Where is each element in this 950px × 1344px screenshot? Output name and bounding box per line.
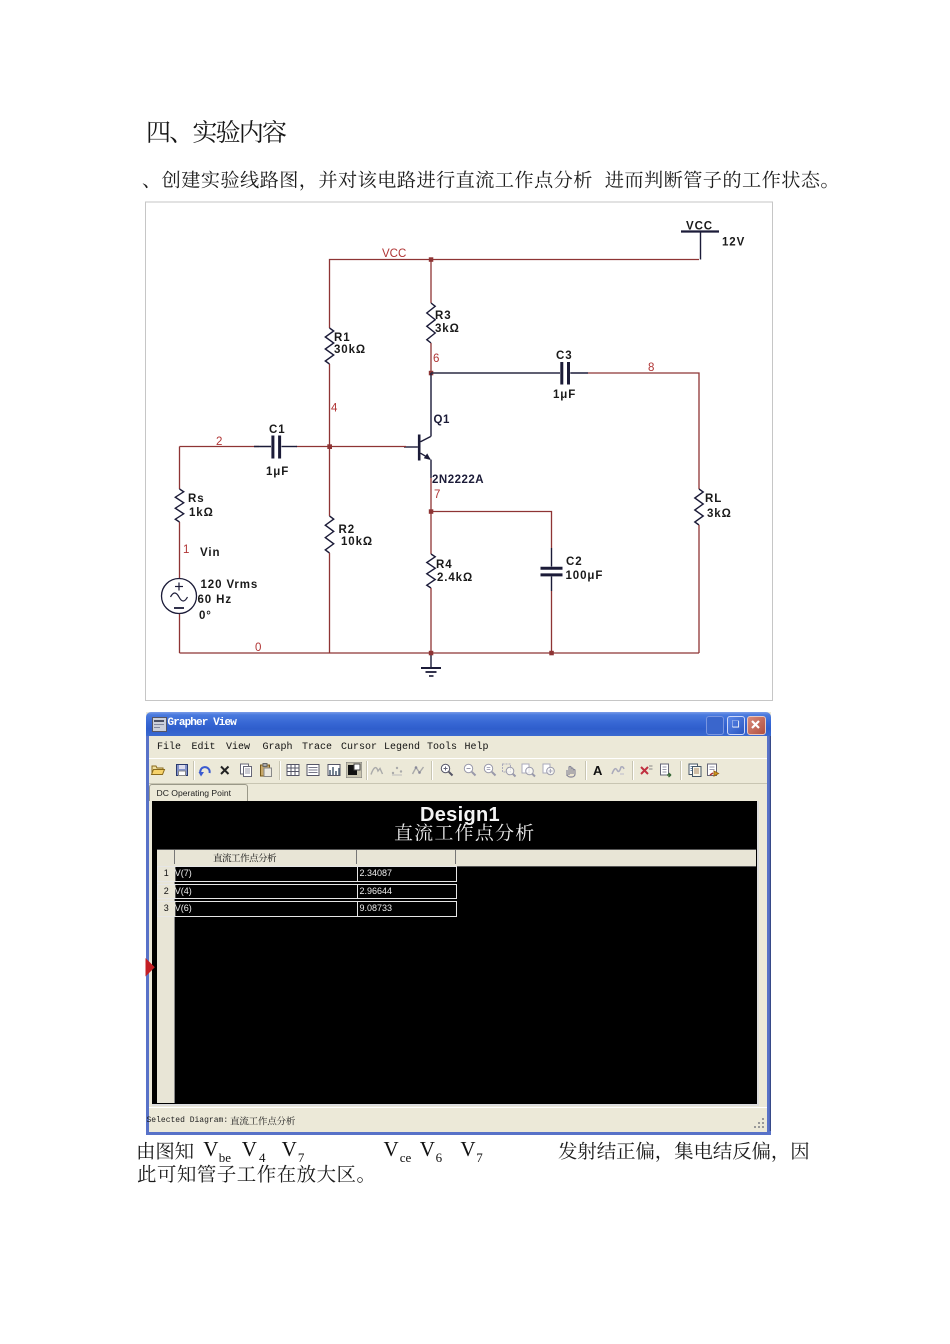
svg-text:6: 6 <box>433 353 439 365</box>
svg-text:3kΩ: 3kΩ <box>435 323 460 335</box>
label VCC 12V <box>686 221 745 249</box>
svg-text:VCC: VCC <box>382 248 406 260</box>
svg-text:Q1: Q1 <box>434 414 450 426</box>
svg-text:R1: R1 <box>334 332 351 344</box>
resistor R2 <box>325 516 333 553</box>
heading <box>146 114 312 150</box>
svg-text:1kΩ: 1kΩ <box>189 507 214 519</box>
svg-text:1μF: 1μF <box>266 466 289 478</box>
label R4 2.4k <box>436 559 473 584</box>
wire Rs branch <box>179 447 181 654</box>
svg-text:RL: RL <box>705 493 722 505</box>
svg-text:4: 4 <box>331 403 338 415</box>
svg-text:0: 0 <box>255 642 261 654</box>
node 6 <box>429 353 440 375</box>
node 0 <box>255 642 261 654</box>
resistor Rs <box>175 489 183 522</box>
transistor Q1 <box>404 373 431 478</box>
svg-text:12V: 12V <box>722 237 745 249</box>
wire node7 to C2 <box>431 512 552 549</box>
svg-text:0°: 0° <box>199 610 212 622</box>
resistor R3 <box>427 260 435 374</box>
junction C2 ground rail <box>549 651 554 656</box>
node 2 wire C1 to base <box>180 446 407 448</box>
resistor RL <box>695 489 703 525</box>
svg-text:R3: R3 <box>435 310 452 322</box>
node 2 <box>216 436 222 448</box>
label R3 3k <box>435 310 460 335</box>
node VCC rail label <box>382 248 406 260</box>
junction R4 ground rail <box>429 651 434 656</box>
svg-text:R2: R2 <box>339 524 356 536</box>
node 4 <box>328 403 339 450</box>
svg-text:R4: R4 <box>436 559 453 571</box>
svg-text:7: 7 <box>434 489 440 501</box>
svg-text:10kΩ: 10kΩ <box>341 536 373 548</box>
svg-text:1: 1 <box>183 544 189 556</box>
svg-text:100μF: 100μF <box>566 570 604 582</box>
label Rs 1k <box>188 493 214 519</box>
label C2 100uF <box>566 556 604 582</box>
bottom conclusion text <box>136 1137 215 1165</box>
svg-text:C2: C2 <box>566 556 583 568</box>
wire C3 to RL <box>588 373 699 489</box>
wire ground rail <box>180 652 700 654</box>
label C1 1uF <box>266 424 289 478</box>
node 7 <box>429 489 441 514</box>
svg-text:2: 2 <box>216 436 222 448</box>
svg-text:C1: C1 <box>269 424 286 436</box>
junction R3 top rail <box>429 257 434 262</box>
svg-text:120 Vrms: 120 Vrms <box>201 579 259 591</box>
node 1 <box>183 544 189 556</box>
circuit image frame <box>146 202 773 701</box>
svg-text:C3: C3 <box>556 350 573 362</box>
paragraph <box>142 166 861 193</box>
resistor R4 <box>427 512 435 654</box>
wire emitter to node7 <box>430 478 432 512</box>
wire collector to C3 <box>431 372 545 374</box>
capacitor C3 <box>545 362 588 385</box>
label R2 10k <box>339 524 374 548</box>
label RL 3k <box>705 493 732 520</box>
svg-text:Rs: Rs <box>188 493 205 505</box>
junction node4 <box>327 444 332 449</box>
svg-text:60 Hz: 60 Hz <box>198 594 233 606</box>
capacitor C2 <box>541 548 563 653</box>
svg-text:Vin: Vin <box>200 547 220 559</box>
svg-text:30kΩ: 30kΩ <box>334 344 366 356</box>
ground <box>421 653 441 676</box>
svg-text:1μF: 1μF <box>553 389 576 401</box>
node 8 <box>648 362 654 374</box>
wire R2 to ground rail <box>329 447 331 654</box>
label C3 1uF <box>553 350 576 401</box>
svg-text:2N2222A: 2N2222A <box>432 474 484 486</box>
wire RL to ground rail <box>698 525 700 653</box>
label source 120Vrms 60Hz 0deg <box>198 579 259 622</box>
resistor R1 <box>325 328 333 364</box>
svg-text:VCC: VCC <box>686 221 713 233</box>
svg-text:2.4kΩ: 2.4kΩ <box>437 572 473 584</box>
svg-text:A: A <box>593 763 603 778</box>
label Vin <box>200 547 220 559</box>
source V1 AC <box>162 579 197 614</box>
label Q1 2N2222A <box>432 414 484 486</box>
svg-text:8: 8 <box>648 362 654 374</box>
label R1 30k <box>334 332 366 356</box>
power VCC symbol <box>681 232 719 260</box>
capacitor C1 <box>254 436 297 459</box>
svg-text:3kΩ: 3kΩ <box>707 508 732 520</box>
wire VCC top rail <box>330 260 700 447</box>
